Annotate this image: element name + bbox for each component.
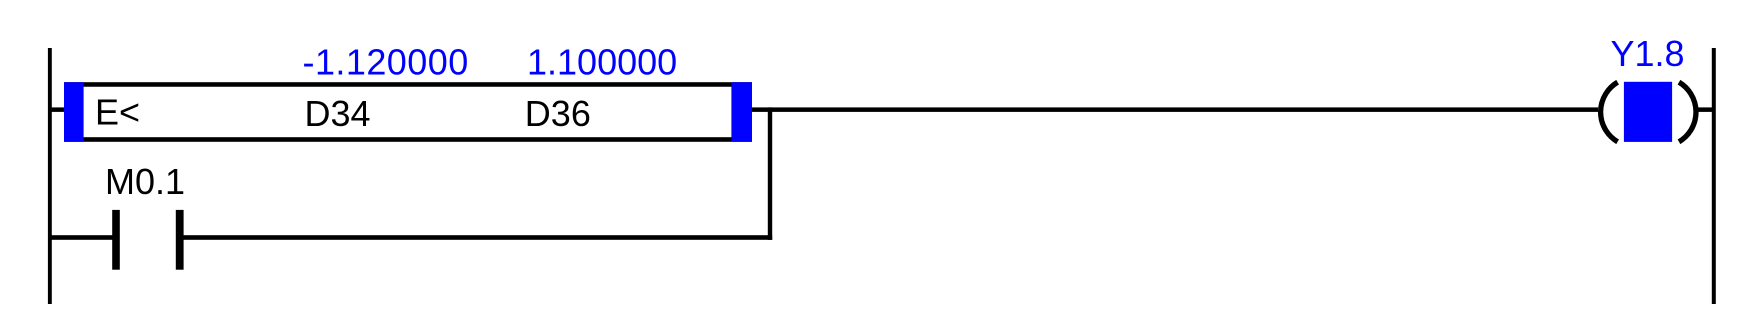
- wire: left rail to compare block: [51, 107, 65, 112]
- wire: left rail to contact M0.1: [51, 235, 113, 240]
- coil Y1.8 right parenthesis: [1679, 82, 1696, 142]
- right power rail: [1712, 48, 1716, 304]
- svg-text:E<: E<: [95, 91, 140, 132]
- compare block U1 body: [64, 82, 752, 142]
- wire: coil to right rail: [1696, 107, 1713, 112]
- contact M0.1 right bar: [176, 210, 184, 270]
- wire: contact M0.1 to branch vertical: [183, 235, 772, 240]
- svg-text:D34: D34: [305, 93, 371, 134]
- coil Y1.8 left parenthesis: [1601, 82, 1618, 142]
- left power rail: [48, 48, 52, 304]
- svg-text:D36: D36: [525, 93, 591, 134]
- svg-text:M0.1: M0.1: [105, 161, 185, 202]
- svg-text:Y1.8: Y1.8: [1611, 33, 1685, 74]
- svg-text:-1.120000: -1.120000: [303, 41, 469, 82]
- svg-text:1.100000: 1.100000: [527, 41, 677, 82]
- wire: compare block to coil: [752, 107, 1598, 112]
- compare block right connector tab: [731, 82, 752, 142]
- compare block left connector tab: [64, 82, 84, 142]
- wire: branch vertical: [768, 107, 772, 240]
- coil Y1.8 state square: [1624, 82, 1672, 142]
- contact M0.1 left bar: [112, 210, 120, 270]
